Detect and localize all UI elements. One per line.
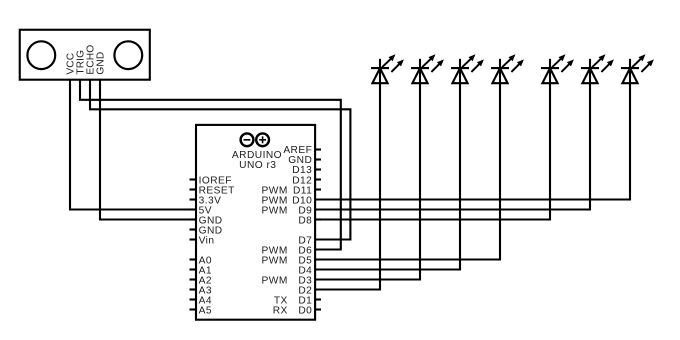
left pin stub A2 xyxy=(190,278,197,280)
svg-text:GND: GND xyxy=(95,52,106,75)
ultrasonic sensor U1 body xyxy=(20,30,150,80)
pin label GND1 xyxy=(199,215,223,226)
svg-text:Vin: Vin xyxy=(199,235,215,246)
pin label D4 xyxy=(298,265,312,276)
left pin stub A1 xyxy=(190,268,197,270)
pin label IOREF xyxy=(199,175,232,186)
sensor pin label GND xyxy=(95,52,106,75)
left pin stub A5 xyxy=(190,308,197,310)
right pin stub GND3 xyxy=(315,158,321,160)
left pin stub IOREF xyxy=(190,178,197,180)
pin label D9 xyxy=(262,205,313,216)
svg-text:D13: D13 xyxy=(292,165,312,176)
LED D6 xyxy=(581,54,614,83)
LED D3 xyxy=(451,54,484,83)
wire D4 to LED3 xyxy=(315,83,460,269)
pin label D10 xyxy=(262,195,313,206)
pin label 3.3V xyxy=(199,195,222,206)
label UNO r3 xyxy=(239,160,276,171)
wire D2 to LED1 xyxy=(315,83,380,289)
LED D2 xyxy=(411,54,444,83)
pin label D8 xyxy=(298,215,312,226)
pin label GND3 xyxy=(288,155,312,166)
pin label D0 xyxy=(273,305,313,316)
sensor pin label TRIG xyxy=(75,50,86,75)
left pin stub GND1 xyxy=(190,218,197,220)
pin label A2 xyxy=(199,275,212,286)
pin label RESET xyxy=(199,185,235,196)
sensor left transducer xyxy=(27,41,55,69)
svg-text:PWM: PWM xyxy=(262,275,288,286)
LED D7 xyxy=(621,54,654,83)
sensor pin label ECHO xyxy=(85,45,96,75)
pin label Vin xyxy=(199,235,215,246)
sensor pin label VCC xyxy=(65,53,76,75)
left pin stub 3.3V xyxy=(190,198,197,200)
wire sensor GND to GND xyxy=(100,79,196,220)
svg-text:D8: D8 xyxy=(298,215,312,226)
right pin stub D8 xyxy=(315,218,321,220)
pin label 5V xyxy=(199,205,212,216)
pin label GND2 xyxy=(199,225,223,236)
svg-text:PWM: PWM xyxy=(262,255,288,266)
svg-text:RX: RX xyxy=(273,305,288,316)
pin label D5 xyxy=(262,255,313,266)
LED D5 xyxy=(541,54,574,83)
pin label A5 xyxy=(199,305,212,316)
wire D3 to LED2 xyxy=(315,83,420,279)
wire D10 to LED7 xyxy=(315,83,630,199)
pin label D12 xyxy=(292,175,312,186)
pin label D11 xyxy=(262,185,313,196)
pin label D13 xyxy=(292,165,312,176)
right pin stub D1 xyxy=(315,298,321,300)
power polarity icon xyxy=(241,133,269,146)
right pin stub D13 xyxy=(315,168,321,170)
pin label D6 xyxy=(262,245,313,256)
wire D9 to LED6 xyxy=(315,83,590,209)
pin label D2 xyxy=(298,285,312,296)
wire sensor VCC to 5V xyxy=(70,79,196,210)
pin label D7 xyxy=(298,235,312,246)
pin label AREF xyxy=(283,145,312,156)
sensor right transducer xyxy=(114,41,142,69)
label ARDUINO xyxy=(232,150,282,161)
LED D4 xyxy=(491,54,524,83)
left pin stub A0 xyxy=(190,258,197,260)
svg-text:PWM: PWM xyxy=(262,205,288,216)
wire D5 to LED4 xyxy=(315,83,500,259)
right pin stub D12 xyxy=(315,178,321,180)
LED D1 xyxy=(371,54,404,83)
right pin stub D0 xyxy=(315,308,321,310)
pin label D1 xyxy=(274,295,312,306)
svg-text:D0: D0 xyxy=(298,305,312,316)
right pin stub AREF xyxy=(315,148,321,150)
left pin stub RESET xyxy=(190,188,197,190)
left pin stub A3 xyxy=(190,288,197,290)
wire sensor TRIG to D6 xyxy=(80,79,341,250)
Arduino UNO U2 body xyxy=(196,125,315,320)
left pin stub A4 xyxy=(190,298,197,300)
svg-text:UNO r3: UNO r3 xyxy=(239,160,276,171)
pin label A1 xyxy=(199,265,212,276)
wire sensor ECHO to D7 xyxy=(90,79,350,240)
left pin stub 5V xyxy=(190,208,197,210)
pin label A0 xyxy=(199,255,212,266)
svg-text:A5: A5 xyxy=(199,305,212,316)
right pin stub D11 xyxy=(315,188,321,190)
pin label A3 xyxy=(199,285,212,296)
wire D8 to LED5 xyxy=(315,83,550,219)
left pin stub GND2 xyxy=(190,228,197,230)
pin label A4 xyxy=(199,295,212,306)
pin label D3 xyxy=(262,275,313,286)
left pin stub Vin xyxy=(190,238,197,240)
